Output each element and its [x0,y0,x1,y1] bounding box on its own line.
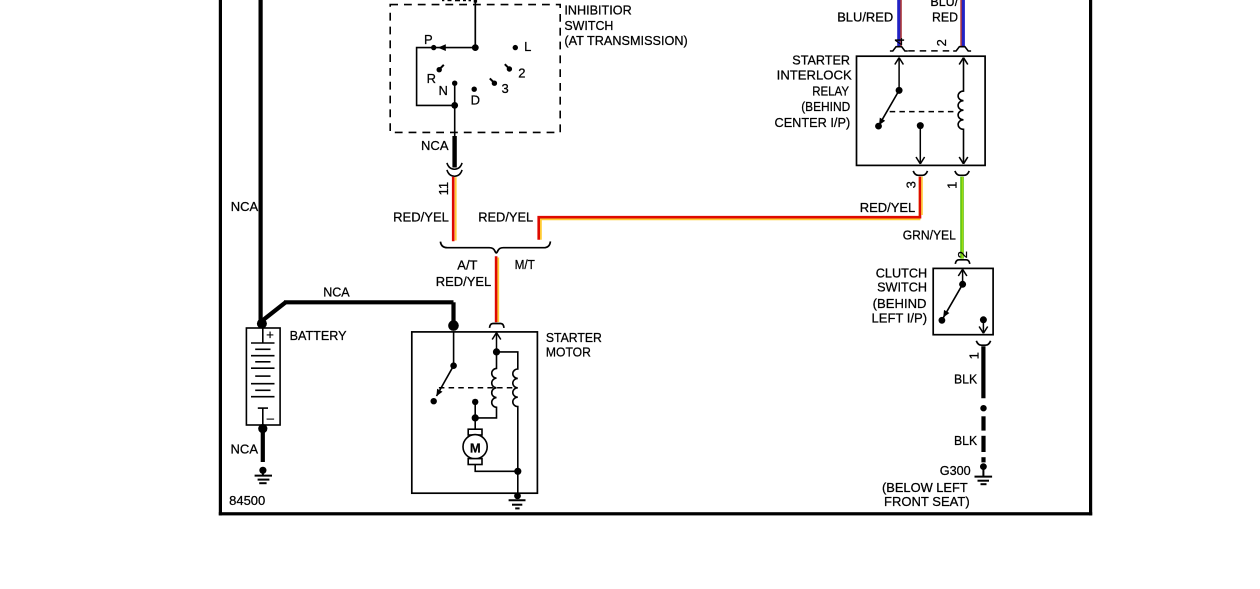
svg-text:L: L [524,39,531,54]
dashed mechanical link relay [890,111,958,113]
svg-text:3: 3 [502,81,509,96]
clutch switch arm [958,269,967,284]
svg-text:NCA: NCA [231,199,259,214]
relay coil [958,58,968,164]
node junction inside inhibitor switch [472,44,479,51]
starter solenoid switch [453,332,455,366]
wire motor to ground [475,465,518,472]
arrowhead toward P [438,44,446,51]
svg-text:BLK: BLK [954,433,978,448]
node junction at battery positive [257,319,267,329]
svg-text:M/T: M/T [515,257,535,272]
starter interlock relay box [857,56,986,165]
svg-text:1: 1 [966,352,981,359]
svg-text:INTERLOCK: INTERLOCK [777,68,852,83]
clutch fixed contact [980,316,987,323]
wire BLK dashed to ground [981,416,985,462]
svg-text:3: 3 [904,181,919,188]
inhibitor switch box (dashed) [390,5,560,133]
connector at starter motor [490,324,505,328]
svg-text:BLU/RED: BLU/RED [837,10,893,25]
svg-text:NCA: NCA [421,138,449,153]
motor M [474,418,476,429]
wire into inhibitor switch [474,0,476,48]
svg-text:BATTERY: BATTERY [290,328,347,343]
svg-text:2: 2 [518,66,525,81]
svg-text:INHIBITIOR: INHIBITIOR [564,3,631,18]
svg-text:BLK: BLK [954,371,978,386]
svg-text:(AT TRANSMISSION): (AT TRANSMISSION) [564,33,687,48]
relay switch arm [895,58,904,91]
node junction solenoid coils [493,348,500,355]
dashed connector link [908,50,953,52]
svg-text:RELAY: RELAY [812,84,849,99]
contact 2 [507,66,512,71]
wire RED/YEL brace to starter motor [497,258,499,323]
svg-text:CLUTCH: CLUTCH [876,265,927,280]
clutch switch box [933,268,993,334]
wire NCA from top-left down to battery [261,0,454,329]
contact L [513,45,518,50]
wire P loop to N junction [417,48,455,106]
connector bump clutch top [955,260,970,264]
wire BLU/RED right [960,0,961,47]
svg-text:M: M [470,441,481,456]
node junction at starter motor feed [448,320,459,331]
wire RED/YEL M/T branch horizontal to relay [541,177,920,240]
wire RED/YEL from connector 11 to brace [455,177,457,240]
wire battery negative to ground [258,424,267,433]
connector cup pin 3 [913,171,927,175]
svg-text:4: 4 [892,38,907,45]
svg-text:CENTER I/P): CENTER I/P) [775,115,851,130]
battery B1 [246,328,280,425]
svg-text:A/T: A/T [457,258,477,273]
svg-text:LEFT I/P): LEFT I/P) [872,310,928,325]
svg-text:RED/YEL: RED/YEL [393,210,449,225]
svg-text:G300: G300 [940,463,971,478]
svg-text:N: N [439,83,448,98]
wire GRN/YEL relay to clutch switch [960,177,964,259]
wire junction to P contact [434,47,476,49]
svg-text:RED/YEL: RED/YEL [436,274,492,289]
svg-text:D: D [471,92,480,107]
splice node [980,405,986,411]
svg-text:RED/YEL: RED/YEL [860,200,916,215]
dashed mechanical link [439,387,515,389]
wire BLK solid [981,346,985,398]
contact R [437,67,442,72]
frame border [219,0,1092,515]
svg-text:2: 2 [934,39,949,46]
svg-text:STARTER: STARTER [546,330,602,345]
pull-in coil [475,352,496,418]
svg-text:FRONT SEAT): FRONT SEAT) [884,494,970,509]
connector bump pin 2 [953,47,971,51]
svg-text:+: + [266,327,274,342]
wire BLU/RED left [897,0,900,47]
ground G300 [975,463,993,484]
svg-text:RED: RED [932,10,958,25]
ground battery [255,467,272,484]
svg-text:STARTER: STARTER [792,53,850,68]
relay fixed contact to pin 3 [917,122,924,129]
arrow into starter motor [492,333,501,352]
contact N [452,81,457,86]
svg-text:RED/YEL: RED/YEL [478,210,533,225]
svg-text:BLU/: BLU/ [930,0,958,9]
contact D [472,87,477,92]
svg-text:(BEHIND: (BEHIND [801,99,850,114]
svg-text:1: 1 [945,182,960,189]
contact P [431,45,436,50]
starter motor box [412,332,538,493]
svg-text:(BEHIND: (BEHIND [873,296,927,311]
connector bump pin 4 [890,47,908,51]
svg-text:–: – [267,411,275,426]
svg-text:MOTOR: MOTOR [546,345,591,360]
svg-text:(BELOW LEFT: (BELOW LEFT [882,480,968,495]
svg-text:84500: 84500 [229,493,265,508]
svg-text:SWITCH: SWITCH [564,18,613,33]
svg-text:SWITCH: SWITCH [877,280,927,295]
connector cup pin 1 [955,171,969,175]
connector cup clutch bottom [976,341,990,345]
svg-text:NCA: NCA [323,285,350,300]
wire NCA below inhibitor switch [454,105,456,137]
svg-text:P: P [424,32,433,47]
svg-text:2: 2 [955,251,970,258]
svg-text:NCA: NCA [231,442,259,457]
hold-in coil [497,352,518,471]
cut-off label marks at top [442,0,477,3]
svg-text:GRN/YEL: GRN/YEL [903,227,956,242]
contact 3 [492,81,497,86]
svg-text:R: R [427,71,436,86]
solenoid contact [472,399,478,405]
ground starter motor [509,493,526,509]
svg-text:11: 11 [436,182,451,196]
connector C-11 arcs [447,163,462,169]
brace A/T M/T selector [440,241,550,253]
node junction below N [451,102,458,109]
